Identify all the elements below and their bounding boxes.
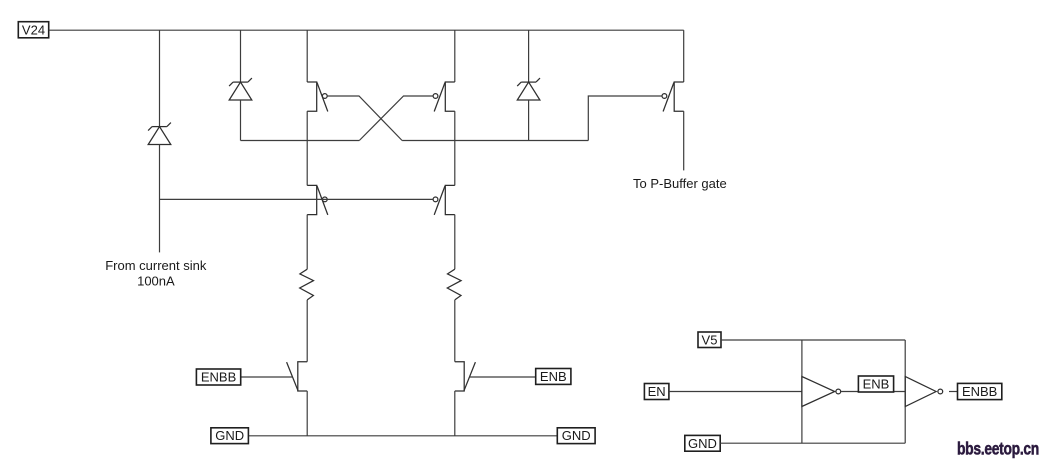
transistor Q1 (PMOS, cross-coupled left)	[307, 82, 328, 112]
port V24	[18, 22, 48, 38]
wire: U1 supply vertical	[801, 340, 803, 443]
svg-text:To P-Buffer gate: To P-Buffer gate	[633, 176, 727, 191]
wire: rail to Q5 source	[683, 30, 685, 82]
wire: Q1 drain to Q3 source	[306, 111, 308, 185]
wire: Q3 drain to R1	[306, 215, 308, 270]
wire: Q2 drain to Q4 source	[454, 111, 456, 185]
wire: R2 to Q7 drain	[454, 300, 456, 362]
wire: Q4 drain to R2	[454, 215, 456, 270]
wire: logic ground rail	[720, 442, 905, 444]
wire: V5 supply rail	[721, 339, 905, 341]
svg-text:V24: V24	[22, 22, 45, 37]
transistor Q5 (PMOS, output to P-buffer)	[662, 82, 684, 112]
transistor Q7 (NMOS enable right)	[455, 362, 476, 391]
svg-text:ENB: ENB	[540, 369, 567, 384]
transistor Q6 (NMOS enable left)	[287, 362, 308, 391]
transistor Q3 (PMOS cascode left)	[307, 185, 328, 215]
svg-text:ENBB: ENBB	[962, 384, 997, 399]
zener diode D1	[148, 123, 171, 145]
wire: rail to zener D2	[240, 30, 242, 82]
wire: rail to Q2 source	[454, 30, 456, 82]
inverter U1	[802, 377, 841, 407]
wire: V24 top rail	[49, 29, 684, 31]
wire: rail to zener D3	[528, 30, 530, 82]
wire: rail to zener D1	[159, 30, 161, 126]
wire: D2 anode down to bus	[240, 100, 242, 141]
svg-text:ENBB: ENBB	[201, 370, 236, 385]
svg-text:GND: GND	[562, 428, 591, 443]
wire: U1 output (ENB node)	[841, 391, 906, 393]
wire: bus left segment (D2 to Q1 drain)	[241, 140, 360, 142]
port GND (right)	[557, 428, 595, 444]
svg-text:GND: GND	[215, 428, 244, 443]
port EN	[644, 384, 669, 400]
wire: EN to inverter U1 input	[669, 391, 802, 393]
wire: U2 supply vertical	[904, 340, 906, 443]
port GND (logic)	[685, 435, 720, 451]
wire: D1 anode to current-sink stub	[159, 145, 161, 253]
wire: Q5 drain to P-buffer gate stub	[683, 111, 685, 170]
wire: bus right segment (Q2 drain, D3)	[402, 140, 588, 142]
zener diode D2	[229, 78, 252, 100]
wire: U2 output to ENBB port	[949, 391, 958, 393]
svg-text:GND: GND	[688, 436, 717, 451]
port ENBB (logic output)	[958, 383, 1002, 399]
resistor R2	[447, 269, 461, 300]
wire: R1 to Q6 drain	[306, 300, 308, 362]
wire: D3 anode down to bus	[528, 100, 530, 141]
wire: bus up to Q5 gate	[588, 96, 662, 141]
port ENB (right)	[536, 369, 571, 385]
transistor Q2 (PMOS, cross-coupled right)	[433, 82, 455, 112]
port V5	[698, 332, 721, 348]
svg-text:bbs.eetop.cn: bbs.eetop.cn	[957, 439, 1039, 459]
zener diode D3	[517, 78, 540, 100]
port ENBB (left)	[196, 369, 240, 385]
wire: current-sink gate bus to Q3/Q4 gates	[160, 198, 434, 200]
svg-text:V5: V5	[702, 332, 718, 347]
wire: Q2 gate to Q1 drain (diagonal)	[359, 96, 433, 141]
svg-text:100nA: 100nA	[137, 274, 175, 289]
svg-text:EN: EN	[648, 384, 666, 399]
wire: ENBB port to Q6 gate	[241, 376, 293, 378]
wire: Q7 gate to ENB port	[470, 376, 536, 378]
wire: ground bus	[248, 435, 557, 437]
wire: Q6 source to ground bus	[306, 391, 308, 436]
transistor Q4 (PMOS cascode right)	[433, 185, 455, 215]
port GND (left)	[211, 428, 249, 444]
wire: rail to Q1 source	[306, 30, 308, 82]
svg-text:ENB: ENB	[863, 377, 890, 392]
resistor R1	[300, 269, 314, 300]
svg-text:From current sink: From current sink	[105, 258, 207, 273]
inverter U2	[905, 377, 942, 407]
node label ENB	[858, 376, 893, 392]
wire: Q7 source to ground bus	[454, 391, 456, 436]
wire: Q1 gate to Q2 drain (diagonal)	[327, 96, 402, 141]
